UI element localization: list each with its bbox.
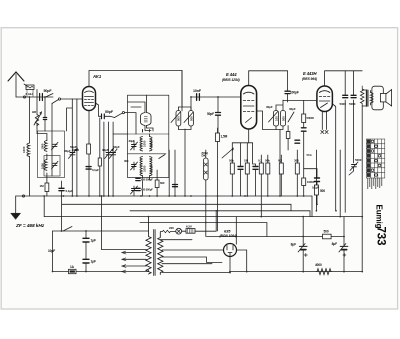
svg-text:1000: 1000 bbox=[41, 143, 45, 149]
svg-text:600-350pF: 600-350pF bbox=[141, 188, 153, 192]
capacitor 5000 col2 bbox=[351, 95, 356, 97]
variable cap gang2 bbox=[105, 149, 114, 159]
svg-text:4000: 4000 bbox=[315, 263, 322, 267]
resistor small bbox=[98, 158, 101, 166]
svg-text:1000: 1000 bbox=[41, 163, 45, 169]
wire to bus bbox=[46, 192, 48, 197]
svg-text:0,1μF: 0,1μF bbox=[312, 186, 319, 190]
svg-text:50000: 50000 bbox=[307, 116, 315, 120]
resistor box row2 bbox=[245, 143, 249, 196]
wires osc coils bbox=[134, 130, 150, 197]
wires output transformer bbox=[362, 90, 370, 106]
svg-text:5000: 5000 bbox=[349, 102, 356, 106]
pot 50k diagonal bbox=[222, 149, 233, 159]
svg-text:5000: 5000 bbox=[340, 102, 347, 106]
transformer taps bbox=[122, 251, 147, 273]
svg-text:300: 300 bbox=[124, 159, 129, 163]
capacitor 50pF bbox=[216, 97, 221, 141]
coil antenna 1000 bbox=[44, 141, 47, 152]
padder cap 600-350pF b bbox=[136, 188, 140, 190]
tube E443H bbox=[317, 86, 333, 112]
capacitor 50pF AK1 bbox=[96, 103, 111, 119]
svg-text:ZF = 468 kHz: ZF = 468 kHz bbox=[15, 223, 45, 229]
wire speaker col 2 bbox=[353, 71, 355, 163]
wires IF boxes bbox=[276, 100, 283, 130]
trimmer osc1 30pF bbox=[131, 142, 138, 150]
speaker bbox=[372, 86, 392, 110]
svg-text:10000: 10000 bbox=[307, 180, 315, 184]
osc coil 1b 1000 bbox=[150, 137, 153, 151]
capacitor on E443H grid leak bbox=[301, 128, 306, 131]
wire bus drops right bbox=[311, 196, 313, 217]
electrolytic 8uF 1 bbox=[298, 217, 307, 272]
mains switch bbox=[63, 227, 72, 232]
resistor box row3 bbox=[259, 155, 263, 217]
svg-text:(RGN 1064): (RGN 1064) bbox=[220, 234, 238, 238]
svg-text:1M: 1M bbox=[244, 159, 249, 163]
shield box oscillator divider lines bbox=[128, 134, 169, 154]
fuse 1A bbox=[69, 269, 77, 273]
resistor row boxes bbox=[216, 128, 220, 231]
svg-text:1,5M: 1,5M bbox=[221, 135, 228, 139]
svg-text:1M: 1M bbox=[40, 184, 45, 188]
svg-text:(RES 964): (RES 964) bbox=[302, 77, 318, 81]
capacitor 50pF antenna bbox=[40, 94, 43, 101]
resistor grid E443H bbox=[302, 101, 306, 197]
svg-text:0,1μF: 0,1μF bbox=[66, 189, 74, 193]
variable cap gang1 bbox=[68, 149, 77, 159]
output transformer secondary coil bbox=[371, 93, 374, 103]
svg-text:50pF: 50pF bbox=[105, 110, 114, 114]
wire antenna to input bbox=[16, 96, 48, 98]
svg-text:1000: 1000 bbox=[150, 140, 154, 147]
wires IF top coils bbox=[128, 95, 154, 131]
svg-text:10μF: 10μF bbox=[48, 249, 55, 253]
svg-text:600-350pF: 600-350pF bbox=[141, 178, 153, 182]
resistor 10000 bbox=[302, 178, 306, 186]
wire E444 anode to IF transformer bbox=[257, 111, 276, 130]
IF box 500 bbox=[280, 111, 294, 127]
mains line with fuse bbox=[53, 270, 149, 272]
capacitor 5000 col1 bbox=[343, 95, 348, 97]
coil left 1000 outside bbox=[27, 143, 30, 156]
resistor box 600 bbox=[155, 170, 159, 196]
trimmer cap 2 bbox=[52, 161, 59, 169]
wire rect cathode down bbox=[229, 257, 231, 272]
wires antenna coils bbox=[37, 104, 52, 184]
wire osc top link bbox=[143, 130, 150, 137]
wire col bbox=[174, 150, 176, 196]
transformer secondary bbox=[158, 232, 163, 275]
resistor box row6 bbox=[295, 150, 299, 196]
bus D bbox=[44, 216, 362, 218]
wire grid E443H bbox=[283, 100, 317, 102]
osc coil 2b 1000 bbox=[150, 157, 153, 176]
svg-text:30pF: 30pF bbox=[266, 105, 273, 109]
wire grid AK1 bbox=[61, 98, 83, 100]
terminal table bbox=[366, 139, 385, 189]
svg-text:1000: 1000 bbox=[143, 140, 147, 147]
tube AK1 bbox=[83, 87, 96, 111]
switch osc right bbox=[159, 155, 165, 159]
svg-text:8μF: 8μF bbox=[332, 242, 338, 246]
lamp circuit bbox=[160, 211, 216, 234]
svg-text:E 444: E 444 bbox=[226, 72, 237, 77]
capacitor padding bbox=[43, 118, 46, 120]
wire grid E444 bbox=[191, 96, 241, 98]
wire AK1 anode to top bus bbox=[89, 71, 182, 87]
padder cap 600-350pF a bbox=[136, 178, 140, 180]
svg-text:50k: 50k bbox=[229, 159, 234, 163]
transformer core bbox=[154, 230, 155, 276]
wire cathode bracket bbox=[232, 142, 252, 144]
wire coil to bus bbox=[29, 157, 31, 197]
node connector bbox=[23, 96, 25, 98]
svg-text:0,3: 0,3 bbox=[278, 159, 282, 163]
wire tap feed from bus A bbox=[102, 196, 147, 250]
svg-text:6,3V: 6,3V bbox=[186, 225, 192, 229]
variable cap 5000 bbox=[349, 162, 358, 175]
wire vertical from antenna net bbox=[29, 97, 31, 143]
tube E444 bbox=[241, 86, 257, 130]
svg-text:500: 500 bbox=[177, 116, 181, 121]
IF box 100 bbox=[269, 111, 279, 127]
trimmer cap bbox=[52, 142, 59, 150]
ground bbox=[11, 196, 21, 219]
capacitor 5000 mains bbox=[83, 238, 89, 242]
bus B bbox=[62, 204, 291, 211]
tuning gang section 1 bbox=[71, 99, 73, 196]
wire AK1 cathode col bbox=[88, 143, 90, 196]
resistor box row5 bbox=[279, 155, 283, 196]
wire top bus drop bbox=[181, 71, 183, 112]
wire E443H anode bbox=[325, 71, 363, 86]
capacitor 10nF grid bbox=[197, 94, 200, 101]
wire to band switch node bbox=[48, 96, 53, 98]
wire below HR coil bbox=[36, 124, 38, 134]
capacitor 1uF mains bbox=[83, 259, 89, 263]
resistor zigzag speaker bbox=[360, 86, 364, 105]
wire drop 191 bbox=[190, 97, 192, 111]
mains bus bbox=[53, 230, 149, 232]
svg-text:100pF: 100pF bbox=[290, 91, 299, 95]
svg-text:1000: 1000 bbox=[143, 165, 147, 172]
wire shield corner stub bbox=[67, 108, 73, 131]
svg-text:8μF: 8μF bbox=[291, 243, 297, 247]
svg-text:635: 635 bbox=[224, 229, 231, 234]
svg-text:500: 500 bbox=[281, 116, 285, 121]
resistor 1M bbox=[45, 183, 49, 192]
svg-text:100: 100 bbox=[274, 116, 278, 121]
output transformer core bbox=[366, 90, 368, 106]
wire E444 cathode legs bbox=[248, 129, 250, 143]
capacitor mini row a bbox=[238, 167, 243, 170]
secondary taps right bbox=[160, 240, 230, 273]
wire AK1 cathode down bbox=[88, 111, 90, 144]
svg-text:0,1: 0,1 bbox=[258, 159, 262, 163]
wire leg to cap a bbox=[240, 143, 242, 196]
svg-text:Eumig: Eumig bbox=[375, 205, 384, 229]
capacitor 5000 bbox=[86, 167, 91, 170]
capacitor 0.1uF bbox=[59, 181, 64, 196]
electrolytic 8uF 2 bbox=[339, 217, 348, 272]
filament leads x x bbox=[321, 112, 328, 134]
Eumig 733 title bbox=[375, 205, 387, 246]
antenna series box 6mH bbox=[24, 84, 34, 97]
svg-text:220: 220 bbox=[169, 226, 174, 230]
rectifier tube 635 bbox=[224, 244, 237, 257]
coil antenna 2 bbox=[44, 160, 47, 171]
svg-text:5000: 5000 bbox=[355, 158, 362, 162]
svg-text:6 mH: 6 mH bbox=[26, 92, 33, 96]
svg-text:30pF: 30pF bbox=[289, 107, 296, 111]
coupling drop with cap 100pF bbox=[285, 71, 290, 102]
svg-text:300: 300 bbox=[294, 159, 299, 163]
svg-text:10nF: 10nF bbox=[193, 89, 202, 93]
wire x335 x340 bbox=[339, 150, 341, 217]
svg-text:AK1: AK1 bbox=[92, 74, 102, 79]
wire top links bbox=[113, 133, 127, 135]
svg-text:500: 500 bbox=[320, 189, 325, 193]
small box top bbox=[286, 126, 290, 151]
switch osc bbox=[110, 112, 136, 135]
resistor 500 B+ bbox=[323, 234, 332, 239]
shield box antenna coils bbox=[38, 131, 65, 178]
svg-text:50pF: 50pF bbox=[44, 89, 53, 93]
svg-text:50 k: 50 k bbox=[307, 153, 313, 157]
svg-text:50pF: 50pF bbox=[207, 112, 214, 116]
switch antenna bbox=[46, 94, 54, 98]
osc coil 2a 1000 bbox=[140, 157, 143, 176]
wire leg to cap b bbox=[253, 143, 256, 196]
wire col bbox=[99, 118, 101, 196]
wire E444 anode top bbox=[249, 71, 288, 86]
svg-text:(REIS 1254): (REIS 1254) bbox=[222, 78, 241, 82]
resistor 4000 zigzag bbox=[316, 269, 332, 275]
shield box oscillator bbox=[128, 95, 169, 177]
wire jog to 0.1uF cap bbox=[304, 169, 317, 205]
resistor box row4 bbox=[266, 155, 270, 196]
B+ line bbox=[207, 236, 345, 238]
bus E bbox=[140, 223, 267, 237]
trimmer osc3 bbox=[131, 186, 138, 194]
svg-text:50pF: 50pF bbox=[70, 145, 77, 149]
capacitor 0.1uF output bbox=[315, 178, 320, 182]
shield box inner bbox=[44, 156, 60, 177]
svg-text:733: 733 bbox=[375, 227, 387, 246]
bus C bbox=[130, 211, 310, 217]
wire speaker col 1 bbox=[344, 71, 346, 213]
variable cap gang2b bbox=[109, 149, 117, 159]
padding cap 500 box2 bbox=[184, 111, 193, 127]
switch contact to AK1 grid bbox=[52, 98, 61, 104]
svg-text:50k: 50k bbox=[265, 159, 270, 163]
wire cap drop bbox=[44, 97, 46, 131]
trimmer osc2 30pF bbox=[131, 162, 138, 170]
bus A bbox=[16, 195, 312, 197]
svg-text:0,1μF: 0,1μF bbox=[92, 168, 99, 172]
transformer primary bbox=[146, 217, 151, 274]
wire x316 drop bbox=[314, 150, 318, 211]
svg-text:1μF: 1μF bbox=[91, 239, 97, 243]
svg-text:30pF: 30pF bbox=[129, 139, 136, 143]
wire col bbox=[108, 122, 110, 196]
wires padding caps bbox=[178, 71, 191, 130]
svg-text:500: 500 bbox=[189, 116, 193, 121]
wire vertical to HR coil bbox=[36, 90, 38, 115]
capacitor mini 300 col bbox=[295, 140, 300, 143]
resistor box row1 bbox=[230, 143, 234, 196]
wire left col to switch bbox=[61, 196, 63, 231]
wire col osc right bbox=[168, 150, 170, 196]
wire mains cap vert bbox=[85, 231, 87, 272]
svg-text:1000: 1000 bbox=[150, 165, 154, 172]
resistor box mid bbox=[87, 144, 91, 154]
ground return bus bbox=[230, 271, 362, 273]
wire col bbox=[112, 122, 114, 196]
antenna bbox=[8, 72, 24, 97]
wire right long vertical bbox=[361, 106, 363, 272]
padding cap 500 box1 bbox=[171, 111, 181, 127]
wire col bbox=[103, 122, 105, 196]
svg-text:1000: 1000 bbox=[22, 146, 26, 153]
capacitor mini row b bbox=[253, 167, 258, 170]
svg-text:1μF: 1μF bbox=[91, 260, 97, 264]
IF transformer top coil pair bbox=[141, 113, 152, 126]
osc coil 1a 1000 bbox=[140, 137, 143, 151]
wire E443H side bbox=[332, 104, 336, 211]
DK jack bbox=[204, 150, 209, 237]
coil HR variable bbox=[34, 112, 42, 125]
svg-text:E 443H: E 443H bbox=[303, 71, 317, 76]
svg-text:30pF: 30pF bbox=[64, 149, 71, 153]
svg-text:30pF: 30pF bbox=[102, 148, 109, 152]
wire rectifier bbox=[235, 217, 237, 245]
svg-text:500: 500 bbox=[324, 230, 329, 234]
svg-text:50pF: 50pF bbox=[113, 145, 120, 149]
svg-text:600: 600 bbox=[160, 181, 165, 185]
wire bbox=[76, 99, 78, 196]
capacitor bbox=[173, 185, 178, 187]
wire mains left vert bbox=[52, 231, 54, 272]
